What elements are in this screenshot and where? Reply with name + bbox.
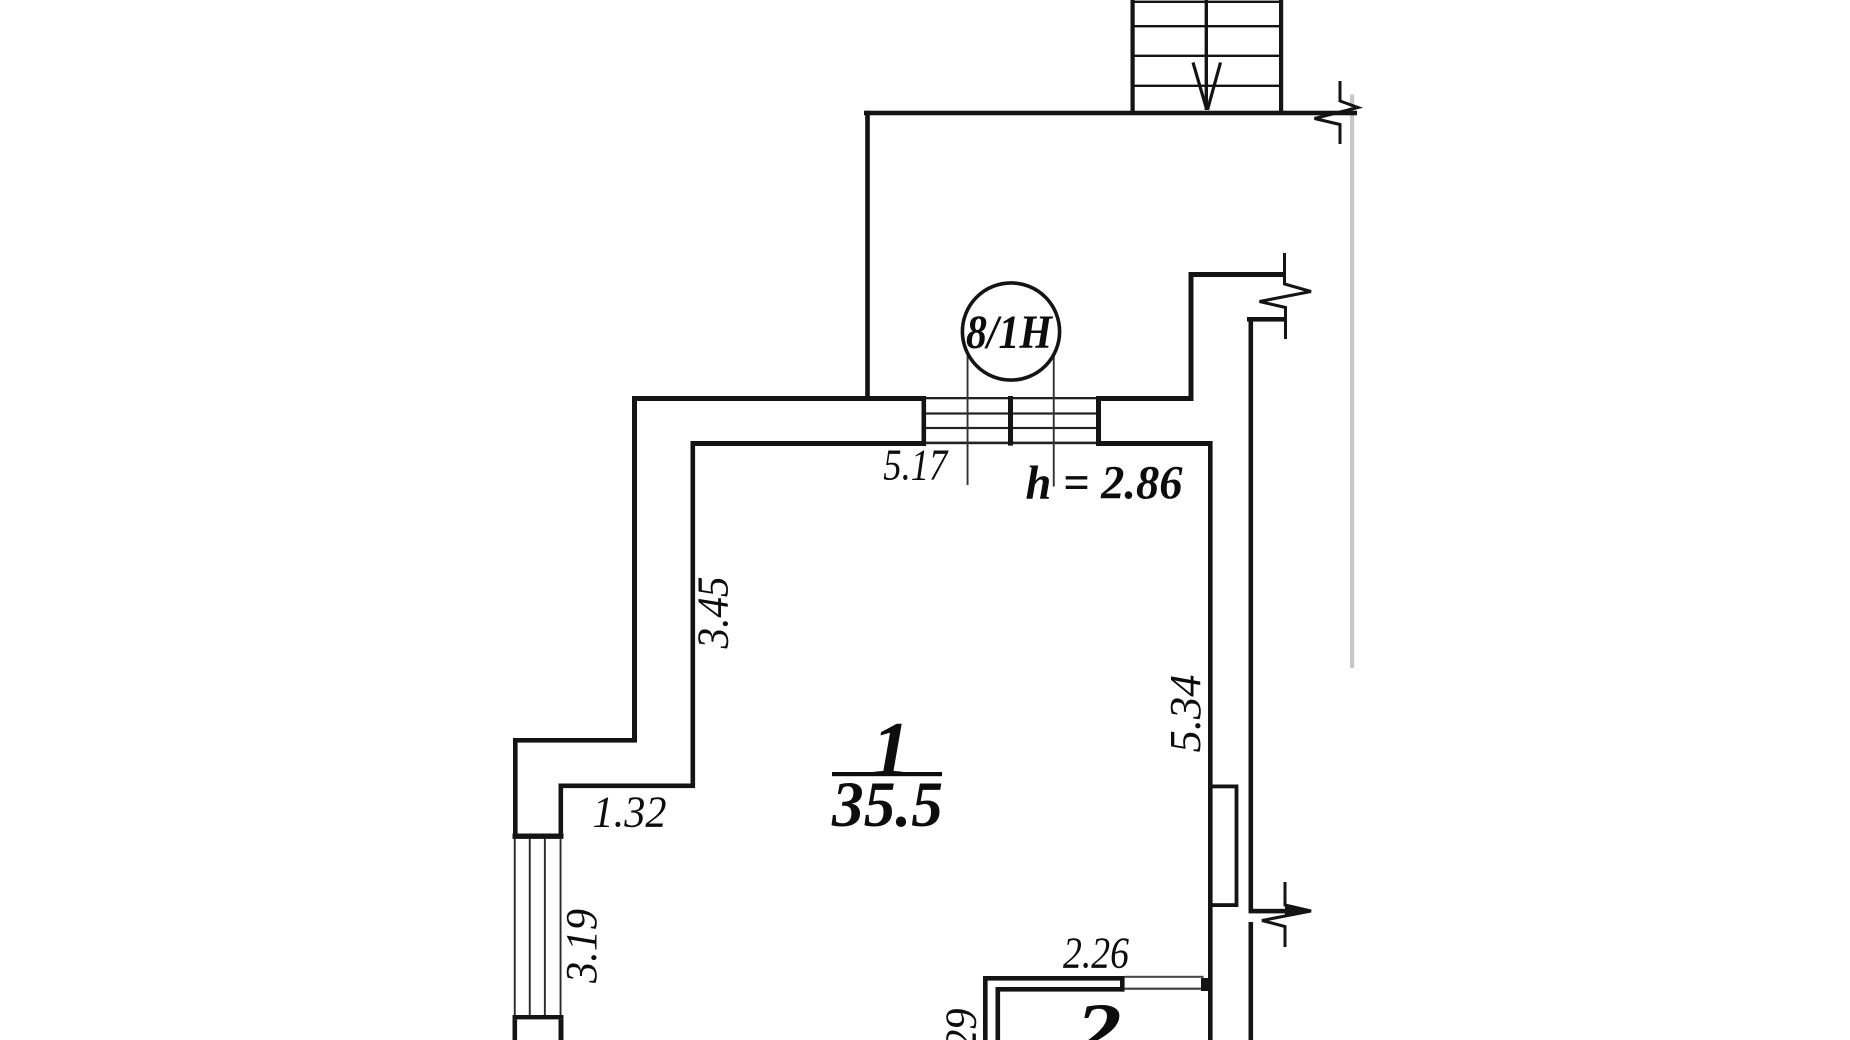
svg-text:3.19: 3.19 xyxy=(557,909,606,984)
svg-text:h = 2.86: h = 2.86 xyxy=(1026,457,1183,510)
room1 top wall inner face right xyxy=(1101,441,1213,446)
radiator niche top xyxy=(1210,785,1238,789)
radiator niche bottom xyxy=(1210,903,1238,907)
opening cap right xyxy=(1096,396,1101,446)
step outer horizontal xyxy=(513,738,637,743)
stair down arrow xyxy=(1193,63,1221,110)
step inner horizontal xyxy=(559,784,696,789)
wall below window inner xyxy=(559,1019,564,1040)
room1 left wall outer vertical xyxy=(632,396,637,743)
room1 right wall inner vertical xyxy=(1208,441,1213,1040)
upper right wall horizontal xyxy=(1189,272,1285,277)
leader line right from circle xyxy=(1053,355,1055,487)
room1 top wall inner face left xyxy=(691,441,923,446)
svg-text:2.26: 2.26 xyxy=(1063,929,1129,978)
room2 top wall inner xyxy=(996,987,1125,992)
corridor wall vertical upper xyxy=(1249,317,1254,910)
wall break top-right xyxy=(1315,81,1359,144)
svg-text:5.34: 5.34 xyxy=(1161,675,1210,753)
room1 top wall outer face right xyxy=(1101,396,1193,401)
top wall xyxy=(864,111,1357,116)
room2 door opening line lower xyxy=(1125,988,1204,990)
room2 door opening line upper xyxy=(1125,976,1204,978)
wall below window outer xyxy=(513,1019,518,1040)
svg-text:2: 2 xyxy=(1074,989,1121,1040)
stair flight xyxy=(1131,0,1284,112)
left wall of upper hall xyxy=(865,111,870,401)
svg-text:1.32: 1.32 xyxy=(593,788,667,837)
left wall outer below step xyxy=(513,738,518,837)
door jamb nub xyxy=(1201,978,1209,991)
opening hatch lines xyxy=(926,397,1096,444)
room1 left wall inner vertical xyxy=(691,441,696,788)
fraction line xyxy=(832,772,942,776)
svg-text:35.5: 35.5 xyxy=(831,769,943,841)
svg-text:3.45: 3.45 xyxy=(688,577,737,650)
unit circle 8/1H xyxy=(962,283,1059,380)
opening pier xyxy=(1008,396,1013,446)
room2 left wall outer xyxy=(983,976,988,1040)
room1 top wall outer face xyxy=(632,396,926,401)
wall break right upper xyxy=(1260,253,1312,339)
gray section line right xyxy=(1350,95,1354,669)
wall break right lower xyxy=(1249,909,1289,914)
svg-text:2.29: 2.29 xyxy=(937,1009,986,1040)
opening cap left xyxy=(922,396,927,446)
room2 wall cap xyxy=(1120,976,1125,992)
svg-text:5.17: 5.17 xyxy=(883,441,949,490)
left wall inner below step xyxy=(559,784,564,838)
room2 left wall inner xyxy=(996,987,1001,1040)
upper right wall vertical xyxy=(1189,272,1194,401)
window top cap xyxy=(513,834,564,839)
radiator niche right xyxy=(1235,785,1239,908)
corridor wall horizontal xyxy=(1247,317,1286,322)
window bottom cap xyxy=(513,1015,564,1019)
leader line left from circle xyxy=(967,355,969,485)
room2 top wall outer xyxy=(983,976,1125,981)
window glazing lines xyxy=(514,839,562,1015)
corridor wall vertical lower xyxy=(1249,922,1254,1040)
svg-text:8/1H: 8/1H xyxy=(966,306,1053,359)
